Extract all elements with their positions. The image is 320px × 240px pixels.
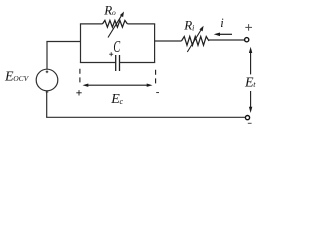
plus polarity mark inside source top [46,71,49,74]
wire: top branch right segment from R_o to right edge [127,23,155,25]
E_t downward arrow [249,91,252,113]
plus mark at E_c left [76,90,81,95]
plus mark at positive terminal [245,24,252,31]
minus mark at negative terminal [248,122,252,124]
resistor R_o zigzag [103,20,128,27]
wire: capacitor branch left segment [80,62,116,64]
E_c span double arrow [83,84,153,87]
variable-resistor arrow through R_i [187,26,203,52]
dashed guide line right (below capacitor block) [155,70,157,84]
minus mark at E_c right [156,92,159,94]
wire: R_i to positive terminal [209,39,244,41]
negative terminal node [245,116,249,120]
E_t upward arrow [249,47,252,75]
wire: source top to upper-left corner [46,42,48,70]
capacitor C plates [116,55,120,71]
svg-text:i: i [220,16,224,30]
wire: RC block right vertical edge [154,24,156,63]
wire: upper-left corner to RC block left node [46,41,80,43]
wire: top branch left segment to R_o [80,23,103,25]
wire: capacitor branch right segment [120,62,156,64]
wire: RC block right node to R_i [154,40,182,42]
wire: RC block left vertical edge [80,24,82,63]
svg-text:C: C [113,38,120,56]
voltage source U1 (E_OCV) [36,69,58,91]
minus polarity mark inside source bottom [46,91,49,93]
plus mark at capacitor [109,52,113,56]
wire: bottom return to negative terminal [46,116,245,118]
wire: source bottom to lower-left corner [46,91,48,118]
dashed guide line left (below capacitor block) [79,69,81,83]
variable-resistor arrow through R_o [108,12,124,38]
current arrow i [214,33,232,37]
positive terminal node [245,38,249,42]
resistor R_i zigzag [182,37,210,46]
